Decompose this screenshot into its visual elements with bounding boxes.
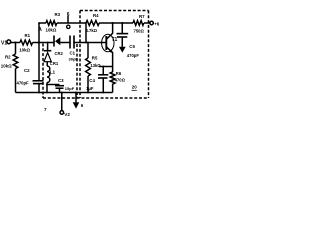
svg-text:13kΩ: 13kΩ <box>90 63 101 68</box>
svg-text:V1: V1 <box>1 40 7 46</box>
svg-text:R2: R2 <box>5 55 11 60</box>
svg-text:R3: R3 <box>55 12 61 17</box>
svg-text:+6: +6 <box>154 22 160 27</box>
svg-text:CR1: CR1 <box>50 61 59 66</box>
svg-text:A: A <box>38 27 42 33</box>
svg-text:20: 20 <box>132 84 137 89</box>
svg-text:750Ω: 750Ω <box>134 29 145 34</box>
svg-text:CR2: CR2 <box>55 51 64 56</box>
svg-text:30pF: 30pF <box>69 56 79 61</box>
svg-text:1μF: 1μF <box>86 86 94 91</box>
svg-text:15pF: 15pF <box>65 86 75 91</box>
svg-text:R5: R5 <box>92 55 98 60</box>
svg-text:R6: R6 <box>116 71 122 76</box>
svg-text:C1: C1 <box>70 51 76 56</box>
svg-text:T1: T1 <box>112 37 118 43</box>
svg-text:10kΩ: 10kΩ <box>1 64 12 69</box>
svg-text:C5: C5 <box>129 44 135 49</box>
svg-text:470Ω: 470Ω <box>115 78 126 83</box>
svg-text:L1: L1 <box>50 70 56 75</box>
svg-text:10kΩ: 10kΩ <box>46 27 57 32</box>
svg-text:470pF: 470pF <box>127 53 140 58</box>
svg-text:R1: R1 <box>25 33 31 38</box>
svg-text:6: 6 <box>67 12 70 18</box>
svg-text:C3: C3 <box>58 78 64 83</box>
svg-text:10kΩ: 10kΩ <box>19 47 30 52</box>
svg-text:R4: R4 <box>93 13 99 18</box>
svg-text:C2: C2 <box>24 68 30 73</box>
svg-text:7: 7 <box>44 107 47 112</box>
svg-text:V2: V2 <box>64 112 70 117</box>
svg-text:470pF: 470pF <box>17 80 30 85</box>
svg-text:C4: C4 <box>89 78 95 83</box>
svg-text:4.7kΩ: 4.7kΩ <box>86 28 98 33</box>
svg-text:R7: R7 <box>139 14 145 19</box>
